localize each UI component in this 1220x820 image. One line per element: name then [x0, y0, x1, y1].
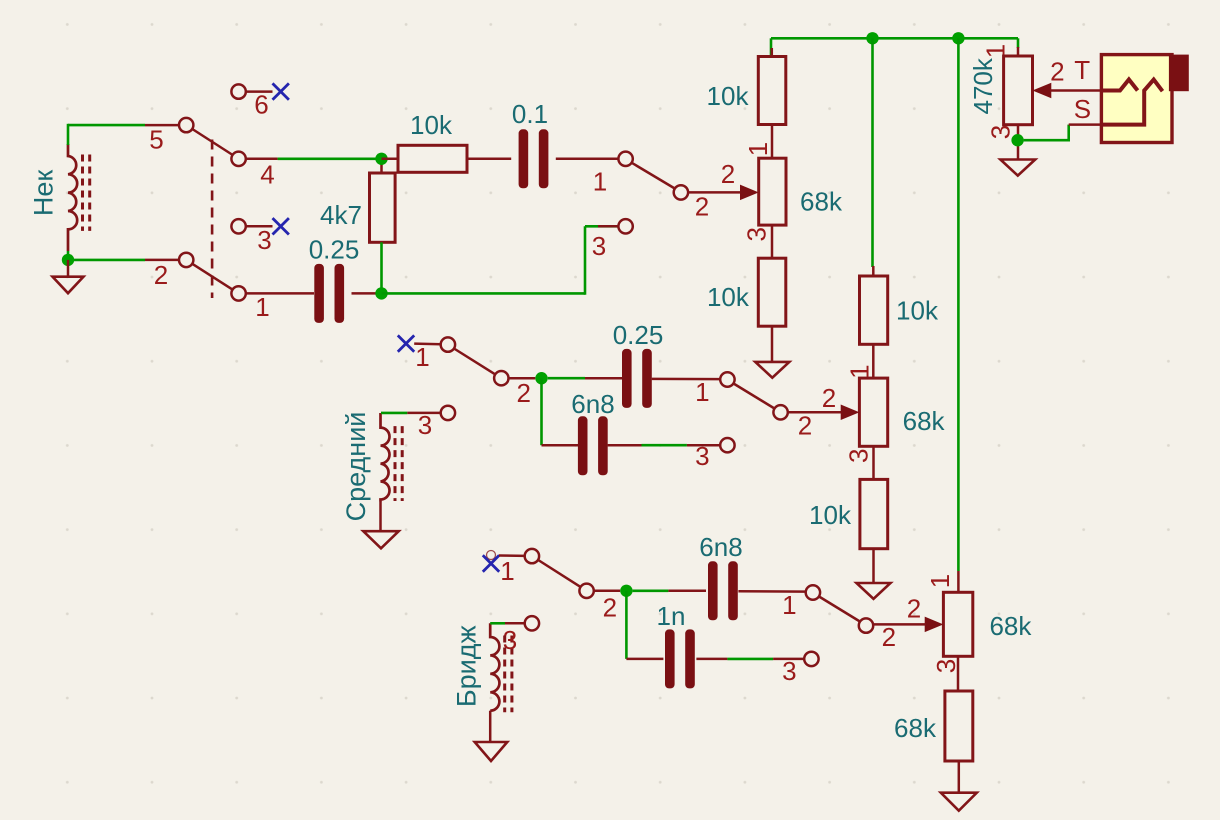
- potentiometer RV 470k: [1004, 56, 1033, 125]
- capacitor C 0.25 2: [622, 349, 632, 408]
- svg-text:T: T: [1074, 55, 1090, 85]
- svg-text:2: 2: [798, 411, 812, 441]
- svg-text:1: 1: [593, 167, 607, 197]
- svg-text:1: 1: [415, 342, 429, 372]
- pot2 pin1 lead: [872, 344, 875, 378]
- wire 0.25 to sw pin1: [652, 378, 721, 381]
- svg-text:2: 2: [907, 594, 921, 624]
- svg-text:Средний: Средний: [341, 412, 371, 522]
- svg-text:68k: 68k: [989, 611, 1032, 641]
- svg-text:6n8: 6n8: [571, 389, 614, 419]
- switch blade 2-1: [192, 263, 234, 290]
- svg-text:2: 2: [695, 192, 709, 222]
- wire node B to sw2 pin3: [382, 292, 586, 295]
- svg-text:5: 5: [149, 125, 163, 155]
- pot3 wiper arrow: [925, 617, 942, 631]
- svg-text:1: 1: [782, 590, 796, 620]
- ground L2: [379, 502, 382, 532]
- switch pin 1 circle: [720, 372, 734, 386]
- wiper wire from sw2b: [788, 411, 842, 414]
- capacitor C 6n8 2: [708, 561, 718, 620]
- pot2 wiper arrow: [841, 405, 858, 419]
- pot3 pin1 lead: [957, 571, 960, 592]
- switch SW1 pin 4: [231, 152, 245, 166]
- wire node D down: [625, 591, 628, 659]
- no-connect sw2b pin1: [398, 335, 414, 351]
- svg-text:3: 3: [931, 659, 961, 673]
- resistor R 10k col1 top: [758, 57, 786, 125]
- ground col1: [771, 326, 774, 362]
- junction top bus col2: [866, 32, 878, 44]
- switch SW1 pin 5: [179, 118, 193, 132]
- switch blade 1-2: [453, 348, 496, 375]
- potentiometer RV 68k 1: [759, 158, 786, 225]
- switch blade 5-4: [192, 129, 234, 156]
- pin 1 circle: [806, 585, 820, 599]
- wiper wire to pot1: [688, 191, 741, 194]
- junction node C: [535, 372, 547, 384]
- pin 5 lead: [145, 124, 180, 127]
- capacitor C 0.25: [314, 264, 324, 323]
- svg-text:Бридж: Бридж: [452, 625, 482, 707]
- svg-text:S: S: [1074, 94, 1091, 124]
- svg-text:2: 2: [822, 383, 836, 413]
- svg-text:3: 3: [503, 625, 517, 655]
- wire S net: [1024, 139, 1069, 142]
- svg-text:6n8: 6n8: [699, 532, 742, 562]
- pin2 stub to node D: [594, 590, 621, 593]
- pot1 pin3 lead: [771, 225, 774, 258]
- wire node D right: [633, 589, 669, 592]
- switch SW1 pin 1: [231, 286, 245, 300]
- switch SW1 pin 3: [231, 219, 245, 233]
- svg-text:1: 1: [500, 556, 514, 586]
- wire to cap 1n: [626, 658, 663, 661]
- pin stub 470k top: [1017, 38, 1020, 48]
- wire wiper to jack T: [1050, 89, 1101, 92]
- svg-text:10k: 10k: [707, 282, 750, 312]
- junction node B: [375, 287, 387, 299]
- svg-text:0.25: 0.25: [613, 320, 664, 350]
- pot1 wiper arrow: [741, 185, 758, 199]
- svg-text:2: 2: [516, 378, 530, 408]
- svg-text:10k: 10k: [410, 110, 453, 140]
- resistor R 4k7: [370, 173, 396, 242]
- resistor R 10k col1 bottom: [758, 258, 786, 326]
- switch linkage dashed: [211, 140, 214, 299]
- svg-text:3: 3: [418, 410, 432, 440]
- svg-text:2: 2: [154, 260, 168, 290]
- svg-text:2: 2: [1050, 57, 1064, 87]
- pickup coil L2 Средний: [381, 413, 390, 502]
- svg-text:1n: 1n: [657, 601, 686, 631]
- junction node A: [380, 159, 383, 173]
- svg-text:10k: 10k: [707, 81, 750, 111]
- wire L2 pin3: [381, 412, 407, 415]
- pot1 pin1 lead: [771, 125, 774, 159]
- wire to cap 6n8: [542, 444, 579, 447]
- svg-text:68k: 68k: [800, 186, 843, 216]
- capacitor C 6n8 1: [578, 416, 588, 475]
- svg-text:68k: 68k: [903, 406, 946, 436]
- pin 3 circle L3: [525, 616, 539, 630]
- svg-text:2: 2: [882, 622, 896, 652]
- pin 3 circle L2: [441, 406, 455, 420]
- resistor R 10k horizontal: [382, 158, 399, 161]
- jack sleeve solid block: [1169, 55, 1189, 92]
- no-connect sw3 pin1: [483, 555, 499, 571]
- svg-text:Нек: Нек: [29, 170, 59, 217]
- switch SW2a pin 3: [618, 219, 632, 233]
- ground col2: [872, 549, 875, 583]
- wire col3 vertical: [957, 38, 960, 571]
- pin 2 lead: [145, 259, 180, 262]
- switch SW3 pin 1: [525, 549, 539, 563]
- wire top bus: [771, 37, 1018, 40]
- pickup coil L3 Бридж: [490, 623, 499, 710]
- svg-text:10k: 10k: [896, 296, 939, 326]
- pin 3 circle: [720, 438, 734, 452]
- svg-text:3: 3: [742, 227, 772, 241]
- svg-text:2: 2: [603, 592, 617, 622]
- svg-text:1: 1: [925, 574, 955, 588]
- wire neck top: [68, 124, 145, 127]
- svg-text:3: 3: [257, 225, 271, 255]
- junction neck-gnd: [62, 254, 74, 266]
- wire 1n right: [696, 658, 727, 661]
- dangling circle sw3: [487, 551, 496, 560]
- wire L3 pin3: [490, 622, 505, 625]
- ground col3: [958, 761, 961, 793]
- junction node D: [620, 585, 632, 597]
- svg-text:470k: 470k: [968, 57, 998, 114]
- svg-text:1: 1: [743, 142, 773, 156]
- switch blade 1-2b: [733, 383, 776, 409]
- svg-text:3: 3: [782, 656, 796, 686]
- svg-text:3: 3: [843, 449, 873, 463]
- ground neck: [67, 260, 70, 277]
- wire cap0.1 to sw2: [556, 158, 619, 161]
- jack tip contact: [1101, 80, 1137, 91]
- pot3 pin3 lead: [957, 656, 960, 691]
- svg-text:1: 1: [255, 292, 269, 322]
- pin 3 circle: [804, 652, 818, 666]
- wire 0.25 to node B: [352, 292, 382, 295]
- capacitor C 0.1: [467, 158, 511, 161]
- no-connect pin 3: [273, 218, 289, 234]
- wire 6n8 right: [608, 444, 642, 447]
- svg-text:4: 4: [260, 160, 274, 190]
- pickup coil L1 Нек: [68, 144, 77, 251]
- jack ring/sleeve contact: [1101, 80, 1162, 125]
- switch SW3 pin 2: [579, 584, 593, 598]
- potentiometer RV 68k 2: [859, 378, 887, 446]
- switch SW1 pin 2: [179, 253, 193, 267]
- wire node C down: [540, 378, 543, 445]
- wiper wire from sw3b: [873, 623, 926, 626]
- wire col2 vertical: [871, 38, 874, 267]
- switch blade 1-2: [537, 560, 581, 588]
- resistor R 68k: [945, 691, 973, 761]
- svg-text:68k: 68k: [894, 713, 937, 743]
- switch SW3b pin 2: [859, 618, 873, 632]
- svg-text:4k7: 4k7: [320, 200, 362, 230]
- wire pin4 to node A: [278, 158, 382, 161]
- switch SW2a pin 1: [618, 152, 632, 166]
- ground pot470k: [1000, 160, 1035, 176]
- jack connector J1 body: [1101, 55, 1172, 143]
- resistor R 10k col2: [872, 266, 875, 276]
- svg-text:0.25: 0.25: [309, 235, 360, 265]
- svg-text:3: 3: [592, 231, 606, 261]
- pot470k wiper arrow left-tip: [1034, 84, 1051, 98]
- svg-text:2: 2: [721, 159, 735, 189]
- svg-text:3: 3: [695, 441, 709, 471]
- pin stub col1 top: [770, 38, 773, 57]
- switch blade 1-2c: [818, 596, 861, 622]
- switch SW2a pin 2: [674, 185, 688, 199]
- no-connect pin 6: [273, 83, 289, 99]
- pot2 pin3 lead: [872, 446, 875, 479]
- potentiometer RV 68k 3: [943, 592, 972, 656]
- pin2 stub to node C: [509, 377, 536, 380]
- switch SW1 pin 6: [231, 84, 245, 98]
- pot470k pin3 lead: [1017, 125, 1020, 160]
- wire 4k7 bottom: [380, 242, 383, 293]
- junction pin3-S: [1011, 134, 1023, 146]
- switch blade 1-2: [631, 162, 676, 189]
- ground L3: [489, 711, 492, 742]
- svg-text:3: 3: [986, 125, 1016, 139]
- wire neck bottom: [67, 251, 70, 261]
- switch SW2b pin 1: [441, 337, 455, 351]
- switch SW2b pin 2 circle: [494, 371, 508, 385]
- svg-text:10k: 10k: [809, 500, 852, 530]
- wire node C right: [548, 377, 585, 380]
- resistor R 10k col2 bottom: [860, 479, 888, 548]
- capacitor C 1n: [665, 629, 675, 688]
- junction top bus col3: [952, 32, 964, 44]
- svg-text:1: 1: [695, 377, 709, 407]
- switch SW2b pin 2: [773, 405, 787, 419]
- svg-text:6: 6: [254, 90, 268, 120]
- wire 6n8 to pin1: [738, 590, 806, 593]
- svg-text:0.1: 0.1: [512, 99, 548, 129]
